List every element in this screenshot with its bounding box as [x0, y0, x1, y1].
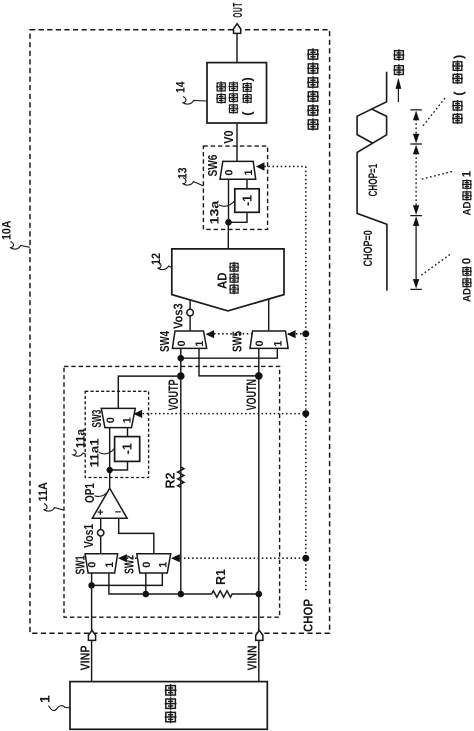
- label VOUTP: [167, 379, 181, 410]
- label 14: [175, 81, 207, 104]
- op-amp OP1: [92, 488, 127, 519]
- label SW1: [74, 556, 88, 575]
- control arrow into SW1: [118, 554, 127, 562]
- switch SW3: [101, 408, 135, 427]
- label SW5: [231, 331, 244, 352]
- svg-text:1: 1: [104, 562, 116, 568]
- demod dashed box 13: [203, 146, 267, 229]
- svg-text:0: 0: [176, 340, 188, 346]
- svg-text:0: 0: [87, 562, 99, 568]
- dimension span AD conversion 0: [413, 216, 419, 288]
- wire feedback bus SW1-1 SW2-0 R2 R1: [109, 573, 212, 594]
- svg-text:1: 1: [121, 417, 133, 423]
- leader AD1: [421, 172, 453, 180]
- offset source Vos3: [171, 303, 194, 329]
- junction R1/VOUTN wire: [255, 591, 262, 598]
- svg-text:-1: -1: [121, 443, 135, 454]
- label OP1: [84, 483, 108, 503]
- svg-text:SW5: SW5: [231, 331, 244, 352]
- switch SW4: [172, 331, 206, 348]
- label 1: [37, 695, 71, 711]
- wire -1 branch 11a1: [110, 427, 128, 470]
- switch SW5: [250, 331, 288, 348]
- junction SW2-0/bus: [143, 591, 150, 598]
- svg-text:SW3: SW3: [91, 410, 105, 428]
- label 12: [151, 253, 172, 270]
- CHOP dotted branch to SW3: [143, 413, 306, 415]
- junction VINP node: [88, 582, 95, 589]
- CHOP control dotted line vertical: [305, 167, 307, 594]
- svg-text:(: (: [451, 91, 466, 96]
- label SW3: [91, 410, 105, 428]
- switch SW1: [85, 554, 118, 573]
- wire V0 node: [236, 123, 238, 162]
- wire OP1 output node: [109, 427, 111, 488]
- control arrow into SW6: [256, 162, 265, 170]
- junction SW4-0: [178, 355, 185, 362]
- label 11A: [38, 482, 64, 511]
- svg-text:12: 12: [151, 253, 164, 265]
- svg-text:−: −: [115, 506, 121, 518]
- wire SW3 output to VOUTP: [118, 376, 181, 409]
- wire AD left input with Vos3: [189, 300, 191, 331]
- junction VOUTN: [255, 372, 263, 380]
- svg-text:-1: -1: [240, 195, 254, 206]
- wire VOUTN vertical: [258, 348, 260, 681]
- svg-text:0: 0: [254, 340, 266, 346]
- svg-text:AD: AD: [215, 272, 230, 289]
- analog front-end dashed box 10A: [30, 30, 330, 634]
- svg-text:+: +: [97, 507, 103, 519]
- svg-text:(: (: [240, 111, 255, 116]
- junction CHOP/SW3: [302, 410, 309, 417]
- dimension span calc(average): [413, 111, 419, 144]
- label AD conversion 0: [461, 288, 474, 302]
- label CHOP=0: [362, 230, 376, 266]
- junction VOUTP: [177, 372, 185, 380]
- wire SW4-1 to SW5-0 (VOUTN): [199, 348, 259, 376]
- label SW6: [207, 155, 220, 177]
- svg-text:1: 1: [273, 341, 285, 347]
- svg-text:SW6: SW6: [207, 155, 220, 177]
- timing waveform: [357, 72, 387, 291]
- svg-text:0: 0: [105, 417, 117, 423]
- svg-text:V0: V0: [222, 130, 236, 144]
- svg-text:VOUTP: VOUTP: [167, 379, 181, 410]
- svg-text:CHOP=0: CHOP=0: [362, 230, 376, 266]
- wire SW6 input 0 down to junction: [228, 179, 230, 222]
- svg-text:0: 0: [223, 169, 235, 175]
- label 11a1: [87, 438, 114, 467]
- resistor R2: [164, 467, 185, 489]
- svg-text:AD: AD: [461, 201, 474, 215]
- switch SW6: [220, 161, 256, 179]
- svg-text:Vos1: Vos1: [83, 523, 96, 548]
- svg-text:0: 0: [141, 562, 153, 568]
- svg-text:SW4: SW4: [159, 330, 172, 352]
- data calculator box 14: [207, 63, 267, 123]
- svg-text:R1: R1: [214, 569, 228, 585]
- svg-text:SW1: SW1: [74, 556, 88, 575]
- time axis arrow: [396, 78, 402, 102]
- label SW2: [123, 555, 137, 574]
- label V0: [222, 130, 236, 144]
- leader calc: [423, 98, 446, 127]
- chopper block dashed box 11A: [64, 366, 280, 617]
- svg-text:OUT: OUT: [232, 2, 246, 17]
- svg-text:VINN: VINN: [245, 646, 260, 671]
- resistor R1: [212, 569, 259, 597]
- terminal OUT: [232, 2, 246, 33]
- junction R2/bus: [178, 591, 185, 598]
- wire SW6 input 1 via -1 block: [229, 179, 248, 222]
- inverter block 11a1 (-1): [115, 437, 140, 462]
- wire SW4 out 0 to VOUTP node: [180, 348, 182, 594]
- svg-text:R2: R2: [164, 472, 178, 488]
- svg-text:AD: AD: [461, 288, 474, 302]
- CHOP dotted branch to SW4/SW5: [214, 333, 306, 335]
- CHOP dotted branch to SW1/SW2: [127, 557, 306, 559]
- svg-text:VINP: VINP: [78, 645, 93, 670]
- terminal VINP: [78, 630, 96, 670]
- label 11a: [73, 429, 87, 457]
- wire cross link SW4-0 to SW5-1: [181, 348, 277, 358]
- svg-text:SW2: SW2: [123, 555, 137, 574]
- svg-text:CHOP: CHOP: [301, 599, 316, 632]
- control arrow into SW4: [206, 330, 215, 338]
- svg-text:): ): [451, 55, 466, 59]
- AD converter block 12: [172, 249, 284, 311]
- sensor box 1: [70, 682, 267, 730]
- svg-text:1: 1: [243, 169, 255, 175]
- svg-text:Vos3: Vos3: [171, 303, 186, 329]
- dimension ticks: [410, 110, 422, 290]
- svg-text:1: 1: [37, 695, 53, 703]
- label 13a: [208, 200, 235, 224]
- dimension span AD conversion 1: [413, 145, 419, 215]
- label CHOP: [301, 599, 316, 632]
- svg-text:1: 1: [157, 562, 169, 568]
- label VOUTN: [245, 379, 259, 410]
- svg-text:): ): [240, 77, 255, 81]
- svg-text:OP1: OP1: [84, 483, 97, 503]
- wire OP1 plus input with Vos1: [100, 518, 102, 554]
- junction CHOP/SW12: [302, 555, 309, 562]
- label AD conversion 1: [461, 201, 474, 215]
- label time (CJK placeholder): [393, 49, 404, 75]
- box 14 text: data-calculator (average) CJK placeholders: [216, 82, 252, 114]
- svg-text:1: 1: [462, 170, 474, 177]
- offset-cancel dashed box 11a: [85, 391, 148, 477]
- switch SW2: [137, 554, 171, 573]
- wire junction to AD converter: [227, 222, 229, 249]
- box 12 text: AD converter: [215, 272, 230, 289]
- control arrow into SW3: [133, 410, 142, 418]
- svg-text:CHOP=1: CHOP=1: [368, 163, 381, 196]
- wire AD right input: [268, 299, 270, 331]
- junction CHOP/SW45: [302, 330, 309, 337]
- label SW4: [159, 330, 172, 352]
- svg-text:14: 14: [175, 81, 188, 93]
- svg-text:VOUTN: VOUTN: [245, 379, 259, 410]
- label 13: [177, 167, 204, 186]
- terminal VINN: [245, 630, 263, 670]
- offset source Vos1: [83, 523, 104, 548]
- svg-text:11A: 11A: [38, 482, 51, 501]
- wire SW1-0 to SW2-1 and VINP: [92, 573, 163, 682]
- wire OUT to data calculator: [236, 33, 238, 62]
- node junction 13 output: [225, 219, 232, 226]
- control arrow into SW2: [171, 554, 180, 562]
- svg-text:10A: 10A: [1, 221, 14, 240]
- label calc (average): [452, 60, 463, 124]
- control arrow into SW5: [287, 330, 296, 338]
- svg-text:13a: 13a: [208, 200, 222, 224]
- label: analog front-end circuit (CJK placeholder): [307, 48, 319, 130]
- svg-text:1: 1: [194, 341, 206, 347]
- svg-text:0: 0: [462, 258, 474, 264]
- wire OP1 minus input to SW2: [119, 518, 154, 554]
- junction OP1 out: [107, 467, 113, 473]
- CHOP dotted branch to SW6: [264, 166, 306, 168]
- sensor text CJK placeholder: [165, 684, 177, 723]
- svg-text:11a: 11a: [73, 429, 87, 449]
- label CHOP=1: [368, 163, 381, 196]
- inverter block 13a (-1): [235, 189, 259, 213]
- label 10A: [1, 221, 30, 250]
- leader AD0: [420, 255, 451, 277]
